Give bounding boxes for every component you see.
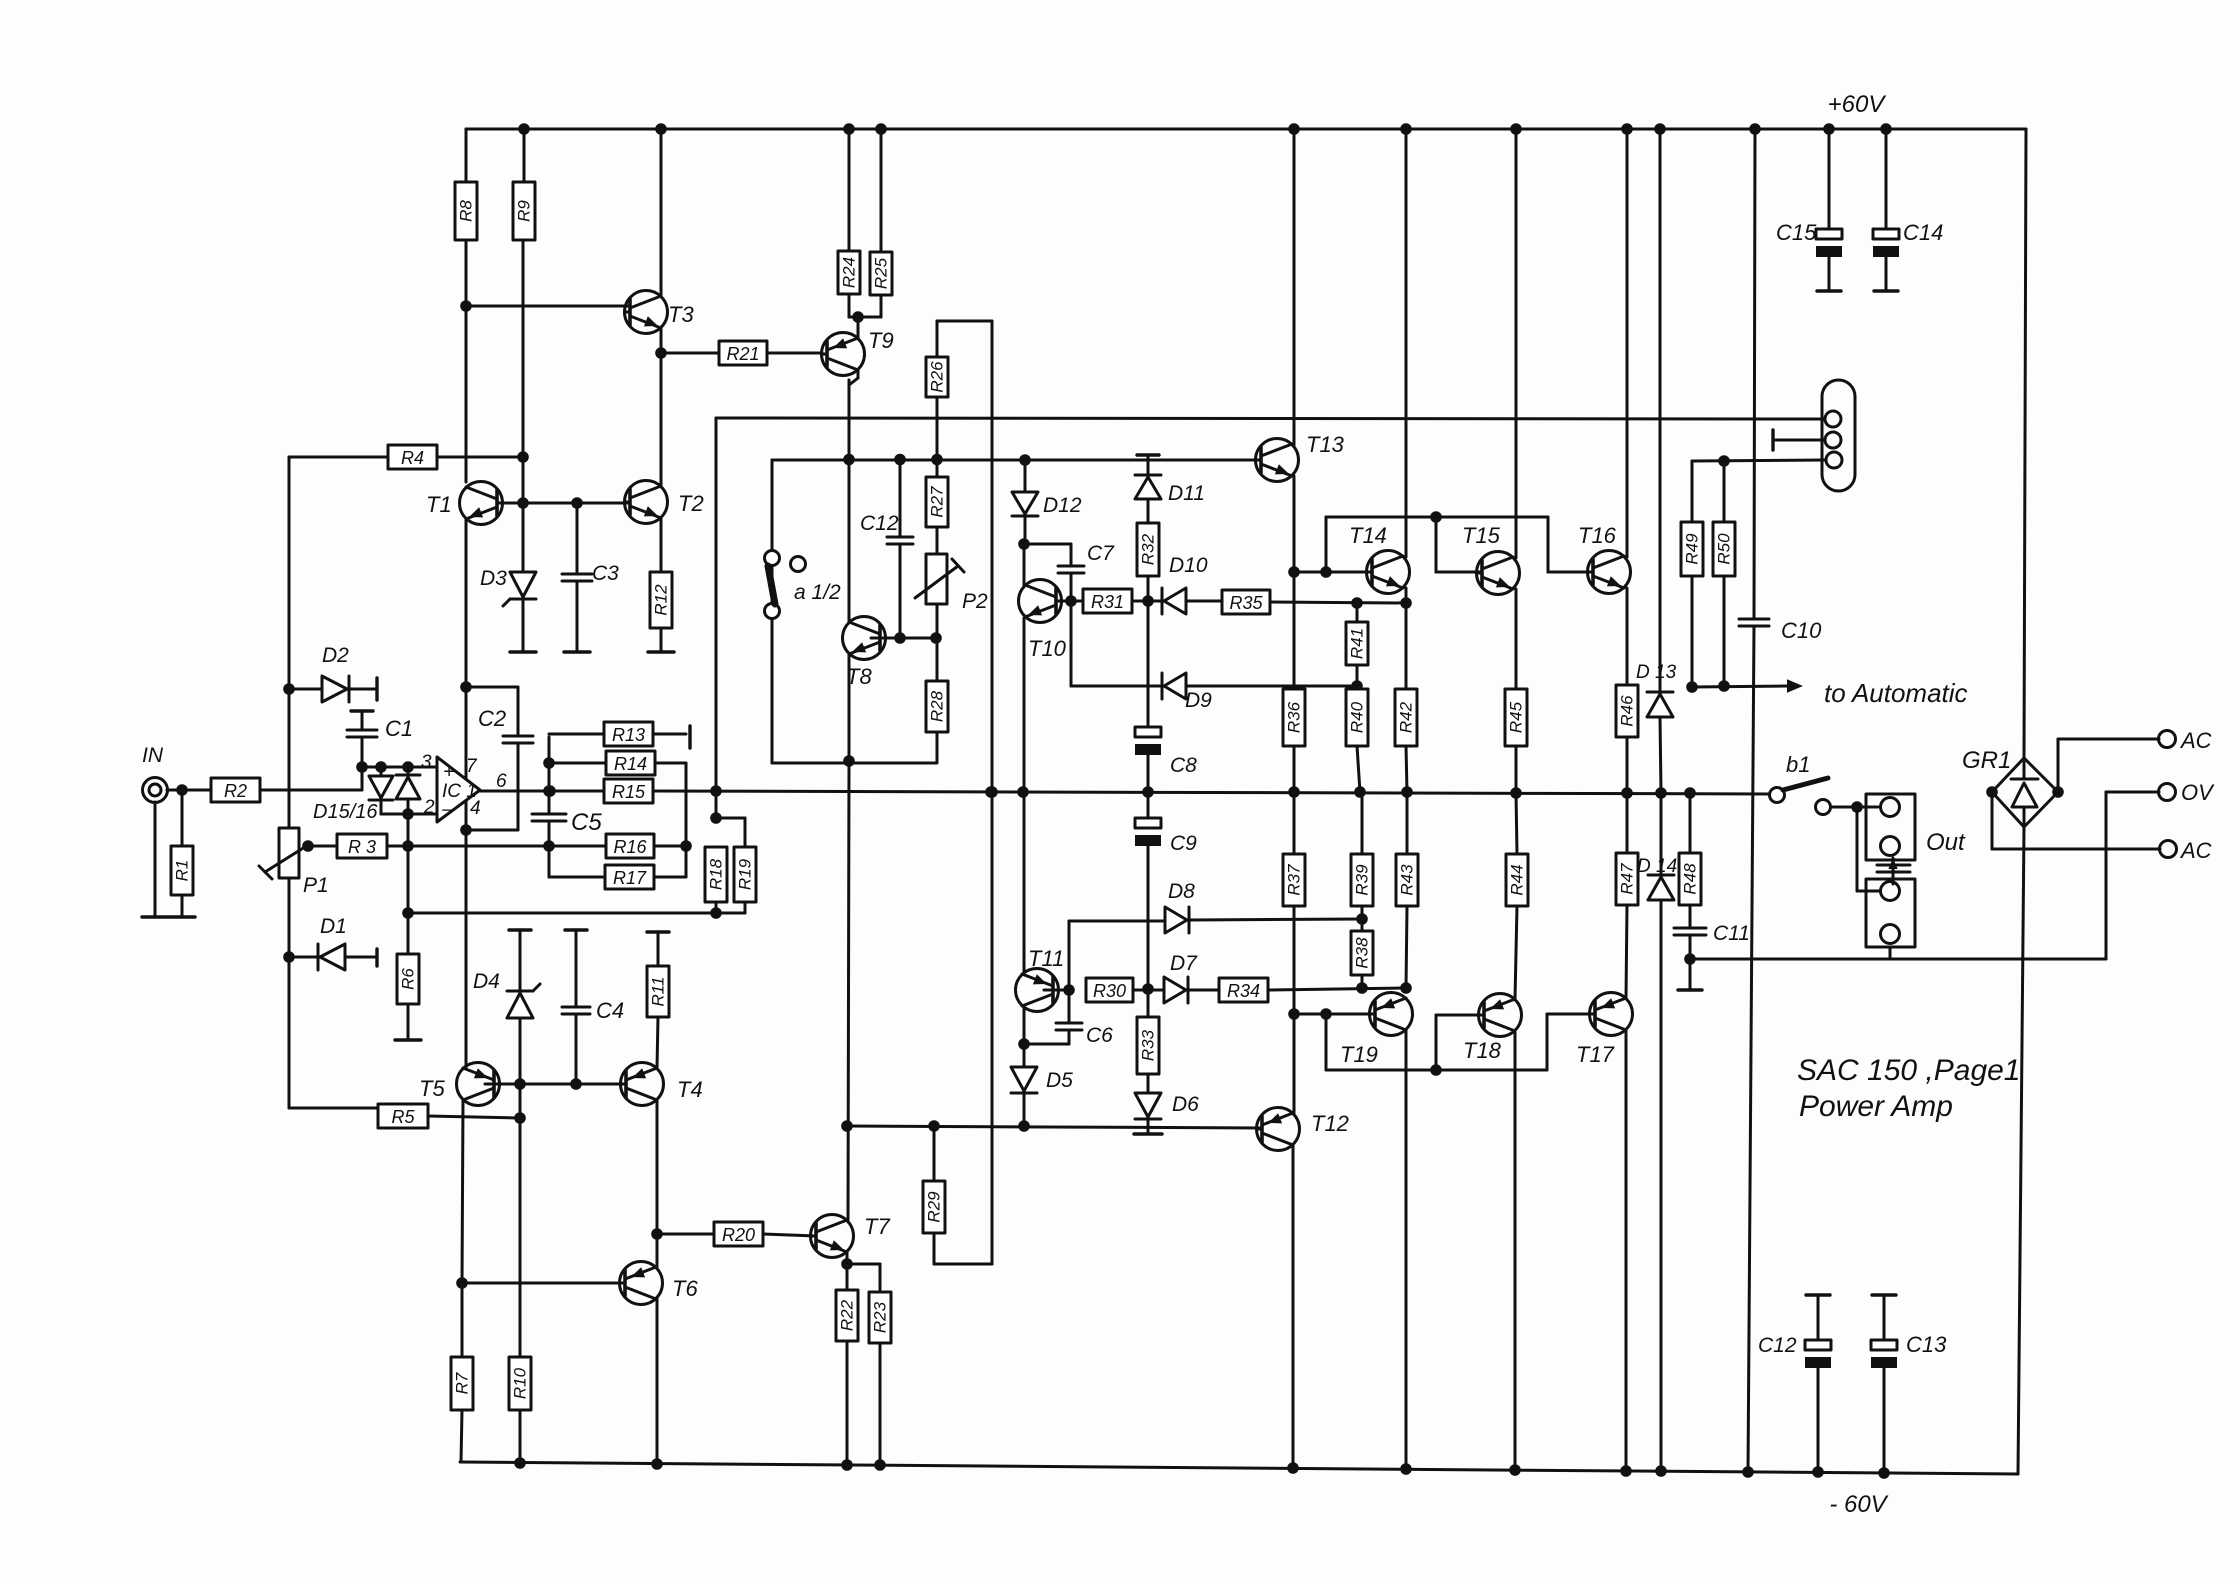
wire	[1147, 499, 1150, 523]
wire	[1186, 600, 1222, 603]
wire	[407, 799, 410, 814]
wire	[1690, 958, 2106, 961]
wire	[660, 518, 663, 572]
wire R47 to T17 emitter	[1626, 905, 1627, 998]
wire	[936, 527, 939, 554]
svg-text:D3: D3	[480, 567, 507, 590]
node R41 top	[1353, 599, 1362, 608]
resistor R12	[650, 572, 672, 628]
svg-text:P1: P1	[303, 874, 329, 897]
wire	[461, 1283, 464, 1357]
wire	[952, 559, 964, 572]
terminal bar	[509, 928, 531, 931]
wire	[1147, 455, 1150, 475]
svg-text:SAC 150 ,Page1: SAC 150 ,Page1	[1797, 1054, 2021, 1087]
svg-text:C12: C12	[1758, 1334, 1797, 1357]
wire	[1147, 846, 1150, 989]
resistor R9	[513, 182, 535, 240]
wire	[549, 876, 605, 879]
capacitor C4	[562, 1007, 590, 1014]
junction	[896, 455, 905, 464]
junction	[2054, 788, 2063, 797]
junction	[877, 125, 886, 134]
wire R29 top	[933, 1126, 936, 1181]
resistor R45	[1505, 689, 1527, 746]
wire	[1023, 1095, 1026, 1126]
svg-text:T10: T10	[1028, 636, 1067, 661]
node R5/T4 emitter column	[516, 1114, 525, 1123]
wire	[522, 570, 525, 572]
wire	[715, 418, 718, 791]
svg-text:C9: C9	[1170, 832, 1197, 855]
junction	[1657, 1467, 1666, 1476]
svg-text:C7: C7	[1087, 542, 1115, 565]
wire	[848, 380, 851, 460]
svg-text:D7: D7	[1170, 952, 1198, 975]
svg-text:to Automatic: to Automatic	[1824, 678, 1968, 708]
transistor T18	[1479, 994, 1522, 1037]
resistor R27	[926, 477, 948, 527]
svg-text:D4: D4	[473, 970, 500, 993]
wire	[1625, 1030, 1628, 1471]
wire	[2106, 791, 2159, 794]
wire	[361, 737, 364, 767]
wire	[1268, 988, 1406, 990]
capacitor C7	[1058, 566, 1084, 573]
wire	[1692, 686, 1787, 687]
svg-text:R43: R43	[1398, 864, 1417, 896]
wire	[1062, 600, 1083, 603]
junction	[516, 1459, 525, 1468]
wire	[576, 503, 579, 574]
junction	[1322, 1010, 1331, 1019]
wire	[289, 1107, 378, 1110]
wire	[1325, 1014, 1328, 1070]
svg-text:R2: R2	[224, 781, 247, 801]
node D5/T12 base wire	[1020, 1122, 1029, 1131]
svg-text:R23: R23	[871, 1301, 890, 1333]
junction	[1825, 125, 1834, 134]
wire	[653, 733, 686, 736]
svg-text:R15: R15	[612, 782, 646, 802]
node P2-R28/T8 base	[932, 634, 941, 643]
node D12 tap	[1021, 456, 1030, 465]
junction	[1512, 125, 1521, 134]
svg-text:R20: R20	[722, 1225, 755, 1245]
diode	[1164, 977, 1188, 1003]
diode D8	[1165, 907, 1189, 933]
junction	[1358, 915, 1367, 924]
capacitor	[532, 814, 566, 821]
wire	[2023, 807, 2026, 824]
wire	[575, 1014, 578, 1084]
wire	[1147, 1074, 1150, 1091]
transistor T9	[822, 333, 865, 376]
transistor T7	[811, 1215, 854, 1258]
wire R26 top hook	[937, 320, 992, 323]
wire R10 to bottom rail	[519, 1410, 522, 1463]
wire R11 to T4 emitter	[657, 1017, 658, 1068]
wire R41 to R40	[1356, 665, 1359, 689]
junction	[1688, 683, 1697, 692]
node D4/base	[516, 1080, 525, 1089]
svg-text:T5: T5	[419, 1076, 445, 1101]
resistor R34	[1219, 978, 1268, 1002]
node C12/T8 base	[896, 634, 905, 643]
svg-text:3: 3	[421, 752, 432, 773]
svg-text:D15/16: D15/16	[313, 801, 378, 823]
capacitor C10	[1739, 619, 1769, 626]
transistor T1	[460, 482, 503, 525]
wire	[480, 790, 604, 793]
electrolytic capacitor	[1873, 229, 1899, 257]
wire	[1023, 544, 1026, 585]
node T8 emitter/a-block	[845, 757, 854, 766]
wire	[380, 767, 383, 777]
svg-text:6: 6	[496, 771, 507, 792]
wire	[991, 1126, 994, 1264]
svg-text:D 14: D 14	[1637, 856, 1677, 877]
svg-text:D12: D12	[1043, 494, 1082, 517]
terminal connector pin2	[1771, 430, 1774, 450]
svg-text:R30: R30	[1093, 981, 1126, 1001]
svg-text:T4: T4	[677, 1077, 703, 1102]
connector pin 3	[1826, 452, 1842, 468]
wire	[660, 129, 663, 296]
wire a-block left edge	[771, 460, 774, 763]
wire	[522, 599, 525, 652]
wire	[462, 1101, 463, 1283]
svg-text:C4: C4	[596, 998, 624, 1023]
resistor R11	[647, 966, 669, 1017]
resistor R23	[869, 1292, 891, 1343]
svg-text:R5: R5	[391, 1107, 415, 1127]
wire	[289, 688, 322, 691]
resistor R3	[337, 834, 387, 858]
capacitor	[1674, 928, 1706, 935]
wire R39 to D8 node	[1361, 906, 1364, 919]
wire	[934, 1263, 992, 1266]
ground bar under jack	[142, 915, 168, 918]
svg-text:R44: R44	[1508, 864, 1527, 895]
junction	[358, 763, 367, 772]
wire	[1071, 685, 1164, 688]
wire	[1723, 461, 1726, 522]
svg-text:Out: Out	[1926, 829, 1966, 856]
wire	[497, 502, 630, 505]
wire	[1754, 129, 1755, 619]
wire	[1293, 129, 1296, 445]
wire	[656, 1234, 659, 1267]
wire	[716, 912, 745, 915]
terminal bar	[1817, 289, 1841, 292]
wire	[1147, 792, 1150, 818]
wire	[848, 129, 851, 251]
resistor R25	[870, 252, 892, 295]
svg-text:R29: R29	[925, 1191, 944, 1223]
transistor T3	[625, 291, 668, 334]
wire	[288, 828, 291, 878]
terminal under C11	[1678, 988, 1702, 991]
wire	[899, 544, 902, 638]
wire	[1294, 571, 1372, 574]
wire	[167, 789, 211, 792]
svg-text:AC: AC	[2179, 838, 2212, 863]
wire	[519, 1084, 522, 1357]
svg-text:T15: T15	[1462, 523, 1501, 548]
wire	[767, 352, 822, 355]
wire	[857, 317, 860, 338]
node T6 base/R7	[458, 1279, 467, 1288]
svg-text:a 1/2: a 1/2	[794, 581, 841, 604]
ground bar under C3	[564, 650, 590, 653]
junction	[1512, 789, 1521, 798]
resistor R16	[606, 834, 654, 858]
node rail/T3	[657, 125, 666, 134]
wire	[685, 763, 688, 877]
wire	[1406, 792, 1409, 854]
resistor R36	[1283, 689, 1305, 746]
node C9/R33/D7 wire	[1144, 985, 1153, 994]
transistor T13	[1256, 439, 1299, 482]
node C7 hook	[1020, 540, 1029, 549]
capacitor C9	[1135, 818, 1161, 846]
svg-text:T6: T6	[672, 1276, 698, 1301]
wire R14 right	[655, 762, 686, 765]
resistor R8	[455, 182, 477, 240]
wire	[1294, 1013, 1375, 1016]
capacitor C8	[1135, 727, 1161, 755]
wire	[849, 378, 858, 385]
resistor R48	[1679, 853, 1701, 905]
wire D14 to bottom rail	[1660, 900, 1663, 1471]
svg-text:D1: D1	[320, 915, 347, 938]
wire	[1626, 793, 1629, 853]
junction	[712, 909, 721, 918]
svg-text:R8: R8	[457, 200, 476, 222]
svg-text:R46: R46	[1618, 695, 1637, 727]
wire	[466, 686, 518, 689]
svg-text:C12: C12	[860, 512, 899, 535]
wire P2 wiper arrow	[915, 566, 958, 598]
transistor T8	[843, 617, 886, 660]
wire	[1361, 792, 1364, 854]
wire	[1023, 1044, 1026, 1067]
node T7 collector/T12 base wire	[843, 1122, 852, 1131]
junction	[1623, 125, 1632, 134]
junction	[1657, 789, 1666, 798]
wire	[849, 316, 881, 319]
resistor R33	[1137, 1017, 1159, 1074]
wire	[1773, 439, 1824, 442]
svg-text:T2: T2	[678, 491, 704, 516]
electrolytic capacitor	[1816, 229, 1842, 257]
svg-text:−: −	[441, 800, 452, 820]
wire	[1992, 848, 2160, 851]
node C11/out wire	[1686, 955, 1695, 964]
node T3 emitter/R21	[657, 349, 666, 358]
wire	[1024, 1043, 1069, 1046]
capacitor	[562, 574, 592, 581]
switch a1/2 contacts	[765, 551, 780, 566]
wire	[289, 956, 320, 959]
transistor T4	[621, 1063, 664, 1106]
wire	[1326, 516, 1548, 519]
wire	[1147, 989, 1150, 1017]
wire	[936, 460, 939, 478]
wire	[345, 956, 377, 959]
svg-text:R35: R35	[1229, 593, 1263, 613]
resistor R7	[451, 1357, 473, 1410]
op-amp IC1	[437, 757, 480, 822]
wire	[1548, 571, 1593, 574]
svg-text:R21: R21	[726, 344, 759, 364]
wire	[744, 818, 747, 847]
wire R44 to T18 emitter	[1515, 906, 1517, 999]
wire	[1024, 516, 1027, 544]
wire	[1326, 1069, 1547, 1072]
wire	[1514, 1031, 1517, 1470]
junction	[1402, 125, 1411, 134]
junction	[1432, 513, 1441, 522]
junction	[1289, 1464, 1298, 1473]
wire	[857, 370, 860, 378]
wire	[2023, 762, 2026, 779]
wire	[466, 829, 518, 832]
resistor R46	[1616, 685, 1638, 737]
svg-text:R7: R7	[453, 1372, 472, 1394]
svg-text:R48: R48	[1681, 863, 1700, 895]
wire	[1689, 793, 1692, 853]
svg-text:R13: R13	[612, 725, 645, 745]
wire	[715, 791, 718, 818]
node C2 top tap	[462, 683, 471, 692]
wire	[936, 638, 939, 681]
wire	[1361, 919, 1364, 931]
svg-text:R41: R41	[1348, 628, 1367, 659]
svg-text:T13: T13	[1306, 432, 1345, 457]
ground bar under R6	[395, 1038, 421, 1041]
svg-text:R22: R22	[838, 1299, 857, 1331]
wire	[1325, 517, 1328, 572]
svg-text:T12: T12	[1311, 1111, 1349, 1136]
wire	[1133, 989, 1164, 992]
wire	[2018, 827, 2024, 1474]
node R32/D10/base wire	[1144, 597, 1153, 606]
transistor T5	[457, 1063, 500, 1106]
junction	[1356, 788, 1365, 797]
capacitor	[887, 537, 913, 544]
wire	[848, 763, 849, 1220]
wire R42 to output	[1406, 746, 1407, 792]
wire	[899, 460, 902, 538]
wire	[880, 295, 883, 317]
svg-text:- 60V: - 60V	[1829, 1491, 1888, 1518]
wire	[661, 352, 719, 355]
transistor T17	[1590, 993, 1633, 1036]
wire	[716, 817, 745, 820]
wire	[716, 418, 1824, 419]
svg-text:C13: C13	[1906, 1332, 1947, 1357]
wire	[181, 895, 184, 917]
transistor T6	[620, 1262, 663, 1305]
node T4 collector/R20/T6 emitter	[653, 1230, 662, 1239]
node pin2/feedback	[404, 810, 413, 819]
ground bar under R1	[169, 915, 195, 918]
node C4/base	[572, 1080, 581, 1089]
wire	[1691, 576, 1694, 687]
Out connector upper half	[1866, 794, 1915, 860]
junction	[1622, 1467, 1631, 1476]
svg-text:T1: T1	[426, 492, 452, 517]
svg-text:T11: T11	[1028, 946, 1064, 971]
speaker connector body	[1822, 380, 1855, 491]
terminal D1	[375, 949, 378, 966]
svg-text:Power Amp: Power Amp	[1799, 1090, 1953, 1123]
wire	[1188, 989, 1219, 992]
transistor T10	[1019, 580, 1062, 623]
resistor R38	[1351, 931, 1373, 975]
wire R36 to output	[1293, 746, 1296, 792]
svg-text:R25: R25	[872, 257, 891, 289]
svg-text:C8: C8	[1170, 754, 1197, 777]
svg-text:R42: R42	[1397, 701, 1416, 733]
wire	[1270, 602, 1406, 603]
node D2 tap	[285, 685, 294, 694]
node P1 wiper/R3	[304, 842, 313, 851]
wire	[1361, 975, 1364, 988]
wire R20 to T7 base	[763, 1234, 816, 1236]
wire R32 to base wire	[1147, 576, 1150, 601]
wire	[744, 902, 747, 913]
terminal bar under D6	[1134, 1132, 1162, 1135]
diode	[396, 775, 420, 799]
junction	[1720, 682, 1729, 691]
svg-text:D11: D11	[1168, 482, 1205, 505]
svg-text:R33: R33	[1139, 1029, 1158, 1061]
wire	[656, 1100, 659, 1234]
node R8/T3 base junction	[462, 302, 471, 311]
node R4/R9 column	[519, 453, 528, 462]
resistor R41	[1346, 622, 1368, 665]
resistor R24	[838, 251, 860, 294]
Out connector lower half	[1866, 879, 1915, 947]
wire	[1659, 129, 1662, 692]
diode D9	[1162, 673, 1186, 699]
resistor R43	[1396, 854, 1418, 906]
wire R46 to output	[1626, 737, 1629, 793]
junction	[1290, 788, 1299, 797]
wire	[1147, 1119, 1150, 1134]
svg-text:D9: D9	[1185, 689, 1212, 712]
svg-text:D2: D2	[322, 644, 349, 667]
capacitor	[503, 736, 533, 743]
svg-text:C11: C11	[1713, 922, 1750, 945]
ground bar under D3	[510, 650, 536, 653]
transistor T15	[1477, 552, 1520, 595]
wire	[1692, 460, 1825, 461]
junction	[1880, 1469, 1889, 1478]
wire	[289, 456, 388, 459]
svg-text:R 3: R 3	[348, 837, 376, 857]
svg-text:R31: R31	[1091, 592, 1124, 612]
wire R40 to output	[1357, 746, 1360, 792]
wire	[848, 294, 851, 317]
resistor R4	[388, 445, 437, 469]
capacitor	[347, 730, 377, 737]
wire	[1626, 129, 1629, 557]
capacitor	[1056, 1023, 1082, 1030]
